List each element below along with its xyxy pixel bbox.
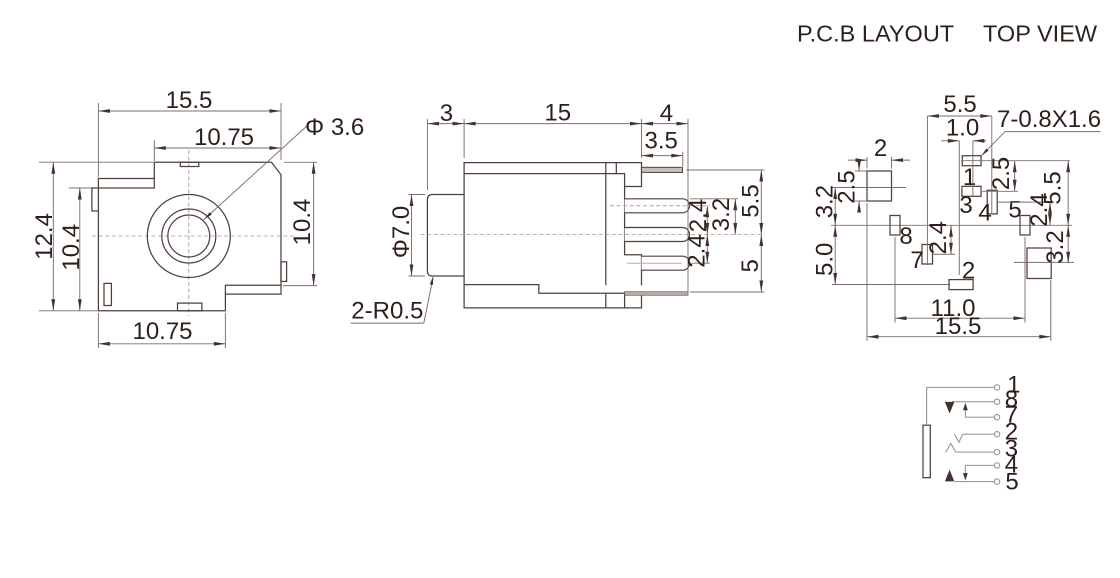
svg-text:Φ 3.6: Φ 3.6 (305, 114, 364, 141)
svg-text:10.4: 10.4 (58, 224, 85, 271)
svg-text:5.5: 5.5 (738, 184, 765, 217)
svg-text:15.5: 15.5 (935, 313, 982, 340)
svg-text:3.2: 3.2 (708, 198, 735, 231)
svg-text:7-0.8X1.6: 7-0.8X1.6 (997, 106, 1101, 133)
svg-text:12.4: 12.4 (31, 213, 58, 260)
svg-text:3.5: 3.5 (645, 128, 678, 155)
svg-text:2.4: 2.4 (684, 234, 711, 267)
svg-text:4: 4 (978, 200, 991, 227)
svg-text:3.2: 3.2 (1042, 230, 1069, 263)
svg-text:15: 15 (544, 100, 571, 127)
svg-text:P.C.B LAYOUT: P.C.B LAYOUT (797, 21, 954, 47)
svg-text:5.0: 5.0 (812, 243, 839, 276)
svg-text:10.75: 10.75 (194, 124, 254, 151)
svg-text:10.75: 10.75 (132, 318, 192, 345)
svg-text:2.5: 2.5 (834, 170, 861, 203)
svg-text:2: 2 (962, 258, 975, 285)
svg-text:5: 5 (1005, 468, 1018, 495)
svg-text:2: 2 (874, 135, 887, 162)
svg-text:10.4: 10.4 (289, 199, 316, 246)
svg-text:4: 4 (660, 100, 673, 127)
svg-text:2-R0.5: 2-R0.5 (351, 298, 423, 325)
svg-text:2.4: 2.4 (925, 221, 952, 254)
svg-text:15.5: 15.5 (166, 87, 213, 114)
svg-text:7: 7 (910, 247, 923, 274)
svg-text:2.5: 2.5 (988, 157, 1015, 190)
svg-text:5.5: 5.5 (1040, 171, 1067, 204)
svg-text:1.0: 1.0 (946, 115, 979, 142)
svg-text:5: 5 (1008, 197, 1021, 224)
svg-text:TOP VIEW: TOP VIEW (983, 21, 1098, 47)
svg-text:3: 3 (440, 100, 453, 127)
svg-text:1: 1 (963, 164, 976, 191)
svg-text:8: 8 (899, 223, 912, 250)
svg-text:3: 3 (959, 192, 972, 219)
svg-text:Φ7.0: Φ7.0 (388, 206, 415, 259)
svg-text:5: 5 (737, 259, 764, 272)
